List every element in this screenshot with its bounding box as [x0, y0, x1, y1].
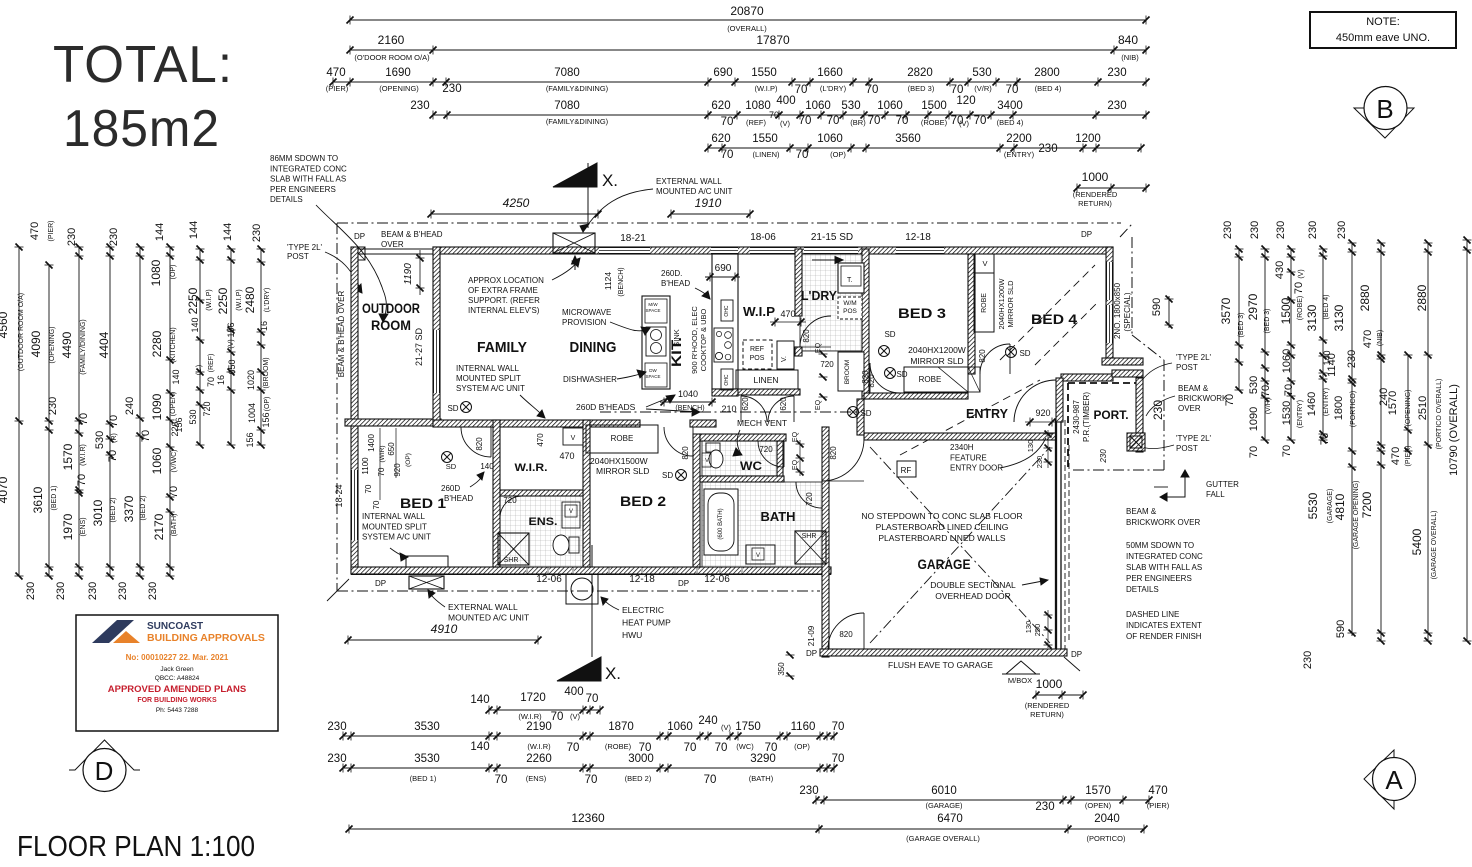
kitchen window 690 top [711, 247, 738, 254]
svg-text:NOTE:: NOTE: [1366, 16, 1400, 28]
svg-text:W.I.P: W.I.P [743, 304, 775, 319]
svg-text:70: 70 [721, 149, 734, 161]
bottom dimension row 2 [343, 735, 834, 737]
interior wall wir/ens divider [500, 490, 589, 496]
section marker D [69, 740, 140, 770]
svg-text:820: 820 [475, 437, 484, 451]
svg-text:DP: DP [354, 232, 365, 241]
svg-text:230: 230 [1035, 456, 1044, 469]
svg-text:V: V [705, 458, 709, 464]
svg-text:B'HEAD: B'HEAD [444, 494, 473, 503]
note box 450mm eave [1310, 12, 1456, 48]
svg-text:L'DRY: L'DRY [801, 288, 837, 303]
svg-text:SYSTEM A/C UNIT: SYSTEM A/C UNIT [362, 533, 431, 542]
outdoor room top beam line [351, 248, 433, 250]
svg-text:DOUBLE SECTIONAL: DOUBLE SECTIONAL [930, 580, 1016, 590]
svg-text:BEAM & B'HEAD OVER: BEAM & B'HEAD OVER [337, 291, 346, 378]
svg-text:70: 70 [796, 149, 809, 161]
section cut arrow X top [553, 163, 597, 187]
svg-text:(W.I.R): (W.I.R) [518, 712, 542, 721]
interior wall bed2/wc-bath [693, 434, 700, 567]
svg-text:(OUTDOOR ROOM O/A): (OUTDOOR ROOM O/A) [18, 293, 25, 371]
svg-text:EQ: EQ [792, 459, 799, 470]
svg-text:17870: 17870 [756, 33, 790, 47]
svg-text:(V/WC): (V/WC) [171, 450, 178, 473]
svg-text:(V): (V) [1298, 269, 1305, 278]
svg-text:EXTERNAL WALL: EXTERNAL WALL [656, 177, 722, 186]
svg-text:230: 230 [47, 397, 59, 415]
svg-text:(WC): (WC) [736, 742, 754, 751]
svg-text:(V): (V) [228, 339, 235, 348]
bed4 bottom wall and nib step [1061, 374, 1113, 381]
svg-text:(V): (V) [780, 119, 791, 128]
svg-text:(OP): (OP) [794, 742, 810, 751]
svg-text:M/BOX: M/BOX [1008, 676, 1032, 685]
smoke detector entry hall [885, 368, 896, 379]
top dimension row 3 [333, 81, 1146, 83]
svg-text:3560: 3560 [895, 133, 921, 145]
svg-text:70: 70 [206, 377, 216, 387]
svg-text:OUTDOOR: OUTDOOR [362, 301, 420, 316]
svg-text:70: 70 [868, 115, 881, 127]
svg-text:1400: 1400 [367, 434, 376, 452]
svg-text:X.: X. [602, 171, 618, 190]
svg-text:T.: T. [847, 277, 853, 284]
svg-text:(V/R): (V/R) [1265, 398, 1272, 414]
svg-text:12-18: 12-18 [629, 574, 655, 585]
svg-text:230: 230 [1222, 221, 1234, 239]
svg-text:FEATURE: FEATURE [950, 453, 987, 462]
svg-text:230: 230 [442, 83, 461, 95]
svg-text:V: V [569, 509, 573, 515]
svg-text:70: 70 [1283, 384, 1295, 396]
svg-text:(BR): (BR) [850, 118, 866, 127]
wip vanity box [777, 341, 794, 369]
svg-text:MICROWAVE: MICROWAVE [562, 308, 611, 317]
svg-text:70: 70 [1281, 445, 1293, 457]
svg-text:4404: 4404 [97, 331, 111, 358]
svg-text:230: 230 [327, 753, 346, 765]
svg-text:ENTRY DOOR: ENTRY DOOR [950, 464, 1003, 473]
svg-text:DW: DW [649, 368, 657, 373]
svg-text:(PIER): (PIER) [326, 84, 349, 93]
svg-text:DP: DP [1071, 650, 1082, 659]
svg-text:SYSTEM A/C UNIT: SYSTEM A/C UNIT [456, 384, 525, 393]
svg-text:18-21: 18-21 [620, 233, 646, 244]
svg-text:BUILDING APPROVALS: BUILDING APPROVALS [147, 632, 265, 644]
svg-text:(BED 2): (BED 2) [110, 498, 117, 523]
svg-text:(BROOM): (BROOM) [263, 357, 270, 388]
garage right wall render line [1055, 420, 1057, 653]
garage rear door arc [828, 613, 864, 649]
svg-text:2260: 2260 [526, 753, 552, 765]
svg-text:B: B [1376, 94, 1393, 124]
interior wall hall top below bench [712, 389, 738, 396]
dimension 1000 rendered return bottom [1036, 694, 1083, 696]
interior wall ens/bed2 [583, 420, 590, 567]
top dimension row 5 [708, 147, 1141, 149]
svg-text:V: V [982, 259, 987, 268]
svg-text:1040: 1040 [678, 389, 698, 399]
svg-text:BED 2: BED 2 [620, 493, 666, 509]
svg-text:WC: WC [740, 459, 762, 473]
svg-text:SD: SD [446, 462, 457, 471]
svg-text:MOUNTED SPLIT: MOUNTED SPLIT [456, 374, 521, 383]
svg-text:ROBE: ROBE [611, 434, 634, 443]
svg-text:(BED 1): (BED 1) [410, 774, 437, 783]
svg-text:70: 70 [377, 467, 386, 476]
svg-text:230: 230 [108, 228, 120, 246]
svg-text:70: 70 [721, 116, 734, 128]
svg-text:EXTERNAL WALL: EXTERNAL WALL [448, 602, 518, 612]
dimension 4910 [348, 639, 538, 641]
svg-text:70: 70 [832, 753, 845, 765]
svg-text:INTEGRATED CONC: INTEGRATED CONC [1126, 552, 1203, 561]
svg-text:470: 470 [1362, 330, 1374, 348]
svg-text:1004: 1004 [247, 403, 257, 423]
svg-text:POS: POS [750, 355, 765, 362]
svg-text:3010: 3010 [91, 499, 105, 526]
svg-text:PER ENGINEERS: PER ENGINEERS [1126, 574, 1192, 583]
bed4 robe column [974, 254, 994, 273]
svg-text:2880: 2880 [1415, 284, 1429, 311]
svg-text:6010: 6010 [931, 785, 957, 797]
svg-text:(V): (V) [570, 712, 581, 721]
svg-text:(BENCH): (BENCH) [675, 405, 704, 412]
garage left wall (bath right) [822, 427, 829, 657]
svg-text:3000: 3000 [628, 753, 654, 765]
svg-text:(W.I.P): (W.I.P) [755, 84, 778, 93]
svg-text:7080: 7080 [554, 67, 580, 79]
svg-text:(BED 4): (BED 4) [1035, 84, 1062, 93]
svg-text:(GARAGE): (GARAGE) [925, 801, 963, 810]
svg-text:PLASTERBOARD LINED WALLS: PLASTERBOARD LINED WALLS [878, 533, 1006, 543]
svg-text:2NO. 1800x850: 2NO. 1800x850 [1113, 282, 1122, 339]
svg-text:BEAM & B'HEAD: BEAM & B'HEAD [381, 230, 443, 239]
svg-text:POST: POST [1176, 363, 1198, 372]
svg-text:SD: SD [1019, 349, 1030, 358]
svg-text:(OP): (OP) [830, 150, 846, 159]
bottom dimension row overall [349, 828, 819, 830]
svg-text:INTERNAL ELEV'S): INTERNAL ELEV'S) [468, 306, 540, 315]
tiled floor ensuite [500, 496, 583, 567]
svg-text:156: 156 [174, 417, 184, 432]
svg-text:140: 140 [190, 317, 200, 332]
svg-text:(GARAGE OPENING): (GARAGE OPENING) [1353, 481, 1360, 550]
svg-text:HEAT PUMP: HEAT PUMP [622, 618, 671, 628]
svg-text:720: 720 [202, 401, 212, 416]
svg-text:230: 230 [1336, 221, 1348, 239]
svg-text:3530: 3530 [414, 721, 440, 733]
interior wall bed3/bed4 robes [968, 254, 975, 374]
svg-text:6470: 6470 [937, 813, 963, 825]
svg-text:'TYPE 2L': 'TYPE 2L' [1176, 353, 1212, 362]
laundry wm pos [838, 297, 862, 319]
kitchen 690 dim [705, 276, 740, 278]
svg-text:144: 144 [222, 223, 234, 241]
svg-text:1060: 1060 [877, 100, 903, 112]
svg-text:70: 70 [76, 474, 88, 486]
bottom dimension row garage [816, 799, 1149, 801]
right external wall bed4 [1106, 247, 1113, 365]
svg-text:OVER: OVER [1178, 404, 1201, 413]
svg-text:16: 16 [216, 375, 226, 385]
svg-text:3400: 3400 [997, 100, 1023, 112]
svg-text:530: 530 [188, 409, 198, 424]
section marker B [1354, 108, 1414, 138]
svg-text:70: 70 [586, 693, 599, 705]
svg-text:470: 470 [780, 309, 795, 319]
svg-text:(V): (V) [959, 119, 970, 128]
suncoast building approvals stamp [76, 615, 278, 731]
svg-text:GUTTER: GUTTER [1206, 480, 1239, 489]
svg-text:70: 70 [372, 500, 381, 509]
svg-text:OVER: OVER [381, 240, 404, 249]
top wall windows 18-21 18-06 21-15 12-18 [599, 247, 650, 254]
svg-text:DASHED LINE: DASHED LINE [1126, 610, 1179, 619]
svg-text:(BED 1): (BED 1) [51, 486, 58, 511]
svg-text:590: 590 [1151, 298, 1163, 316]
svg-text:70: 70 [827, 115, 840, 127]
svg-text:230: 230 [1302, 651, 1314, 669]
entry feature door arc [1014, 380, 1056, 422]
svg-text:MOUNTED SPLIT: MOUNTED SPLIT [362, 522, 427, 531]
kitchen island bench [642, 296, 670, 389]
svg-text:(ENS): (ENS) [80, 517, 87, 536]
svg-text:INTEGRATED CONC: INTEGRATED CONC [270, 164, 347, 173]
svg-text:(V): (V) [721, 723, 732, 732]
wir robe shelf [563, 428, 583, 445]
wip fixtures ref pos [743, 340, 772, 369]
svg-text:1690: 1690 [385, 67, 411, 79]
svg-text:SPACE: SPACE [646, 374, 661, 379]
svg-text:900 R'HOOD, ELEC: 900 R'HOOD, ELEC [690, 306, 699, 374]
svg-text:530: 530 [1248, 376, 1260, 394]
bed3 robe [904, 367, 968, 392]
left external wall outdoor room and bed1 [351, 247, 358, 574]
svg-text:DINING: DINING [570, 339, 617, 356]
svg-text:400: 400 [564, 686, 583, 698]
svg-text:1060: 1060 [805, 100, 831, 112]
svg-text:(KITCHEN): (KITCHEN) [170, 327, 177, 362]
svg-text:V: V [571, 435, 576, 442]
svg-text:EQ: EQ [815, 399, 822, 410]
svg-text:1060: 1060 [667, 721, 693, 733]
svg-text:2250: 2250 [216, 287, 230, 314]
svg-text:SHR: SHR [802, 533, 817, 540]
svg-text:INTERNAL WALL: INTERNAL WALL [362, 512, 426, 521]
svg-text:(PIER): (PIER) [1147, 801, 1170, 810]
svg-text:MIRROR SLD: MIRROR SLD [596, 466, 649, 476]
svg-text:70: 70 [1006, 84, 1019, 96]
svg-text:1550: 1550 [751, 67, 777, 79]
svg-text:(GARAGE OVERALL): (GARAGE OVERALL) [906, 834, 980, 843]
svg-text:20870: 20870 [730, 4, 764, 18]
svg-text:(PORTICO): (PORTICO) [1350, 391, 1357, 427]
svg-text:260D.: 260D. [661, 269, 682, 278]
linen cupboard [736, 370, 798, 389]
svg-text:BRICKWORK: BRICKWORK [1178, 394, 1228, 403]
svg-text:260D B'HEADS: 260D B'HEADS [576, 402, 636, 412]
svg-text:86MM SDOWN TO: 86MM SDOWN TO [270, 154, 338, 163]
laundry door arc [800, 316, 831, 347]
svg-text:(BATH): (BATH) [749, 774, 774, 783]
bath tub [704, 489, 738, 555]
bath shower [795, 531, 826, 564]
svg-text:350: 350 [777, 662, 786, 676]
svg-text:820: 820 [839, 630, 853, 639]
bottom dimension row WIR 1720 [489, 709, 600, 711]
svg-text:2250: 2250 [186, 287, 200, 314]
external ac unit top box [553, 233, 595, 253]
svg-text:W.I.R.: W.I.R. [515, 462, 548, 474]
svg-text:1720: 1720 [520, 692, 546, 704]
svg-text:2820: 2820 [907, 67, 933, 79]
bottom dimension row 3 [343, 767, 834, 769]
svg-text:HWU: HWU [622, 630, 642, 640]
svg-text:230: 230 [55, 582, 67, 600]
svg-text:185m2: 185m2 [63, 100, 220, 158]
svg-text:7080: 7080 [554, 100, 580, 112]
interior wall wc right [777, 441, 783, 476]
svg-text:(BENCH): (BENCH) [618, 267, 625, 296]
svg-text:BED 1: BED 1 [400, 495, 446, 511]
svg-text:TOTAL:: TOTAL: [53, 36, 233, 94]
svg-text:7200: 7200 [1360, 491, 1374, 518]
svg-text:2880: 2880 [1358, 284, 1372, 311]
entry diagonal dashes [900, 380, 1040, 455]
svg-text:18-06: 18-06 [750, 232, 776, 243]
garage ceiling diagonal dashes [870, 447, 1050, 643]
svg-text:2510: 2510 [1417, 396, 1429, 420]
dim 590 right nib [1168, 296, 1170, 328]
svg-text:(ROBE): (ROBE) [605, 742, 632, 751]
svg-text:230: 230 [1035, 801, 1054, 813]
svg-text:820: 820 [829, 446, 838, 460]
svg-text:PER ENGINEERS: PER ENGINEERS [270, 185, 336, 194]
svg-text:1000: 1000 [1036, 677, 1063, 691]
svg-text:MECH VENT: MECH VENT [737, 418, 787, 428]
port bottom post [1127, 433, 1145, 451]
svg-text:820: 820 [861, 370, 870, 384]
svg-text:156: 156 [261, 412, 271, 427]
svg-text:820: 820 [978, 349, 987, 363]
svg-text:(GARAGE OVERALL): (GARAGE OVERALL) [1431, 511, 1438, 580]
svg-text:620: 620 [711, 133, 730, 145]
svg-text:4560: 4560 [0, 311, 10, 338]
svg-text:21-09: 21-09 [807, 625, 816, 646]
svg-text:RF: RF [901, 466, 912, 475]
svg-text:3130: 3130 [1305, 304, 1319, 331]
svg-text:260D: 260D [441, 484, 460, 493]
svg-text:1550: 1550 [752, 133, 778, 145]
svg-text:1530: 1530 [1281, 401, 1293, 425]
svg-text:DP: DP [1081, 230, 1092, 239]
tiled floor bath [702, 482, 823, 567]
svg-text:140: 140 [480, 462, 494, 471]
svg-text:PLASTERBOARD LINED CEILING: PLASTERBOARD LINED CEILING [876, 522, 1009, 532]
svg-text:70: 70 [1248, 446, 1260, 458]
svg-text:4810: 4810 [1333, 493, 1347, 520]
broom cupboard [838, 352, 864, 391]
interior wall wir/bed1 [493, 420, 500, 567]
svg-text:156: 156 [245, 432, 255, 447]
svg-text:BED 4: BED 4 [1031, 311, 1077, 327]
svg-text:MIRROR SLD: MIRROR SLD [910, 356, 963, 366]
svg-text:470: 470 [29, 222, 41, 240]
svg-text:1080: 1080 [149, 259, 163, 286]
svg-text:(ENTRY): (ENTRY) [1004, 150, 1035, 159]
svg-text:FALL: FALL [1206, 490, 1225, 499]
svg-text:230: 230 [799, 785, 818, 797]
svg-text:230: 230 [117, 582, 129, 600]
svg-text:(LINEN): (LINEN) [752, 150, 780, 159]
svg-text:70: 70 [974, 115, 987, 127]
svg-text:5530: 5530 [1306, 492, 1320, 519]
svg-text:1190: 1190 [403, 263, 414, 285]
svg-text:250: 250 [1033, 624, 1042, 637]
svg-text:1460: 1460 [1306, 392, 1318, 416]
svg-text:ENS.: ENS. [529, 516, 558, 528]
svg-text:70: 70 [684, 742, 697, 754]
svg-text:70: 70 [495, 774, 508, 786]
electric heat pump hwu [566, 574, 598, 604]
svg-text:2970: 2970 [1246, 293, 1260, 320]
svg-text:130: 130 [1024, 621, 1033, 634]
svg-text:230: 230 [25, 582, 37, 600]
svg-text:230: 230 [410, 100, 429, 112]
svg-text:(BED 4): (BED 4) [1323, 295, 1330, 320]
svg-text:230: 230 [1307, 221, 1319, 239]
svg-text:430: 430 [1274, 261, 1286, 279]
svg-text:1090: 1090 [150, 393, 164, 420]
svg-text:140: 140 [171, 369, 181, 384]
svg-text:2040HX1200W: 2040HX1200W [997, 278, 1006, 330]
svg-text:(W.I.R): (W.I.R) [80, 444, 87, 466]
section cut arrow X bottom [557, 657, 601, 681]
svg-text:SUPPORT. (REFER: SUPPORT. (REFER [468, 296, 540, 305]
interior wall wc top [700, 434, 786, 441]
svg-text:1660: 1660 [817, 67, 843, 79]
svg-text:SD: SD [860, 409, 871, 418]
svg-text:130: 130 [1026, 440, 1035, 453]
svg-text:ENTRY: ENTRY [966, 406, 1008, 421]
svg-text:COOKTOP & UBO: COOKTOP & UBO [699, 309, 708, 372]
bath door arc [796, 482, 822, 508]
svg-text:230: 230 [1038, 143, 1057, 155]
svg-text:BRICKWORK OVER: BRICKWORK OVER [1126, 518, 1200, 527]
svg-text:M/W: M/W [648, 302, 658, 307]
svg-text:140: 140 [470, 694, 489, 706]
svg-text:ROBE: ROBE [919, 375, 942, 384]
svg-text:PROVISION: PROVISION [562, 318, 607, 327]
svg-text:70: 70 [108, 415, 120, 427]
svg-text:(BED 3): (BED 3) [1238, 313, 1245, 338]
ens toilet [569, 537, 579, 553]
bottom wall window jamb marks 12-06 12-18 12-06 [526, 568, 528, 573]
svg-text:(OPENING): (OPENING) [49, 327, 56, 364]
svg-text:ELECTRIC: ELECTRIC [622, 605, 664, 615]
interior wall wc/bath divider [700, 476, 784, 482]
bed3 door arc [870, 363, 900, 393]
ens vanity [562, 502, 580, 528]
svg-text:(ROBE): (ROBE) [1297, 296, 1304, 321]
svg-text:3370: 3370 [122, 495, 136, 522]
garage door 820 top [822, 439, 864, 481]
svg-text:21-15 SD: 21-15 SD [811, 232, 853, 243]
svg-text:REF: REF [750, 346, 764, 353]
svg-text:720: 720 [759, 445, 773, 454]
